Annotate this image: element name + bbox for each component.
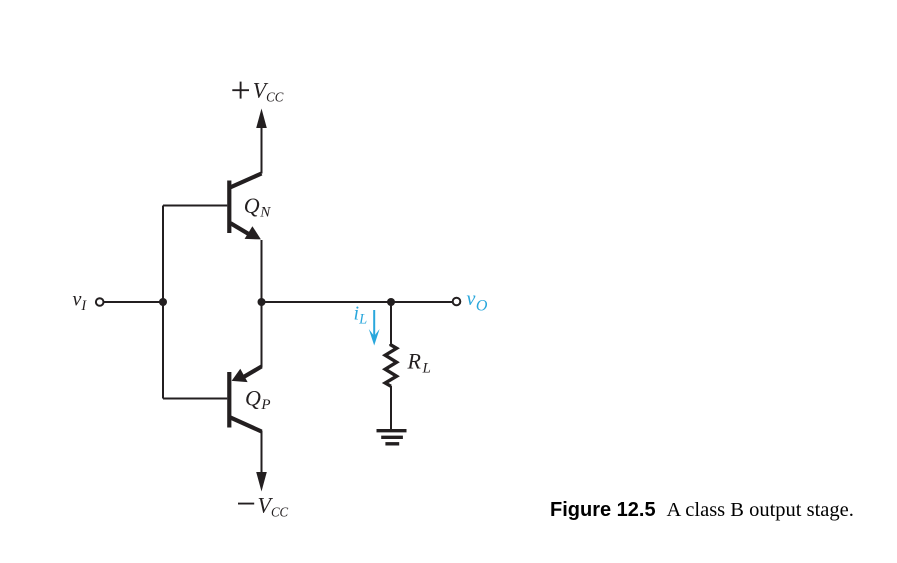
label +VCC — [232, 77, 284, 105]
caption Figure 12.5 — [550, 499, 854, 521]
label RL — [407, 349, 431, 377]
svg-text:QN: QN — [244, 193, 271, 221]
svg-text:VCC: VCC — [258, 492, 289, 520]
node load junction — [387, 298, 395, 306]
wire load bottom — [390, 386, 392, 429]
svg-text:iL: iL — [354, 303, 368, 328]
output terminal vO — [453, 298, 461, 306]
label QN — [244, 193, 271, 221]
wire QP base — [163, 398, 227, 400]
wire QN emitter — [261, 240, 263, 302]
supply arrow -VCC — [256, 472, 267, 492]
label vI — [73, 289, 88, 315]
wire QN base — [163, 205, 227, 207]
svg-text:vO: vO — [467, 288, 488, 315]
svg-text:A class B output stage.: A class B output stage. — [667, 499, 854, 521]
svg-text:Figure 12.5: Figure 12.5 — [550, 499, 656, 521]
ground — [377, 431, 407, 444]
svg-text:vI: vI — [73, 289, 88, 315]
wire left rail — [162, 206, 164, 399]
label iL — [354, 303, 368, 328]
transistor QP — [229, 367, 261, 432]
wire load top — [390, 302, 392, 345]
resistor RL — [385, 344, 396, 386]
label QP — [245, 386, 271, 414]
supply arrow +VCC — [256, 109, 267, 174]
current arrow iL — [369, 310, 380, 346]
wire QP emitter — [261, 302, 263, 368]
node input junction — [159, 298, 167, 306]
input terminal vI — [96, 298, 104, 306]
node emitters junction — [258, 298, 266, 306]
wire output — [262, 301, 453, 303]
svg-text:RL: RL — [407, 349, 431, 377]
wire QP collector — [261, 431, 263, 476]
svg-text:VCC: VCC — [253, 77, 284, 105]
label vO — [467, 288, 488, 315]
wire input — [104, 301, 163, 303]
label -VCC — [238, 492, 289, 520]
svg-text:QP: QP — [245, 386, 271, 414]
transistor QN — [229, 174, 261, 240]
